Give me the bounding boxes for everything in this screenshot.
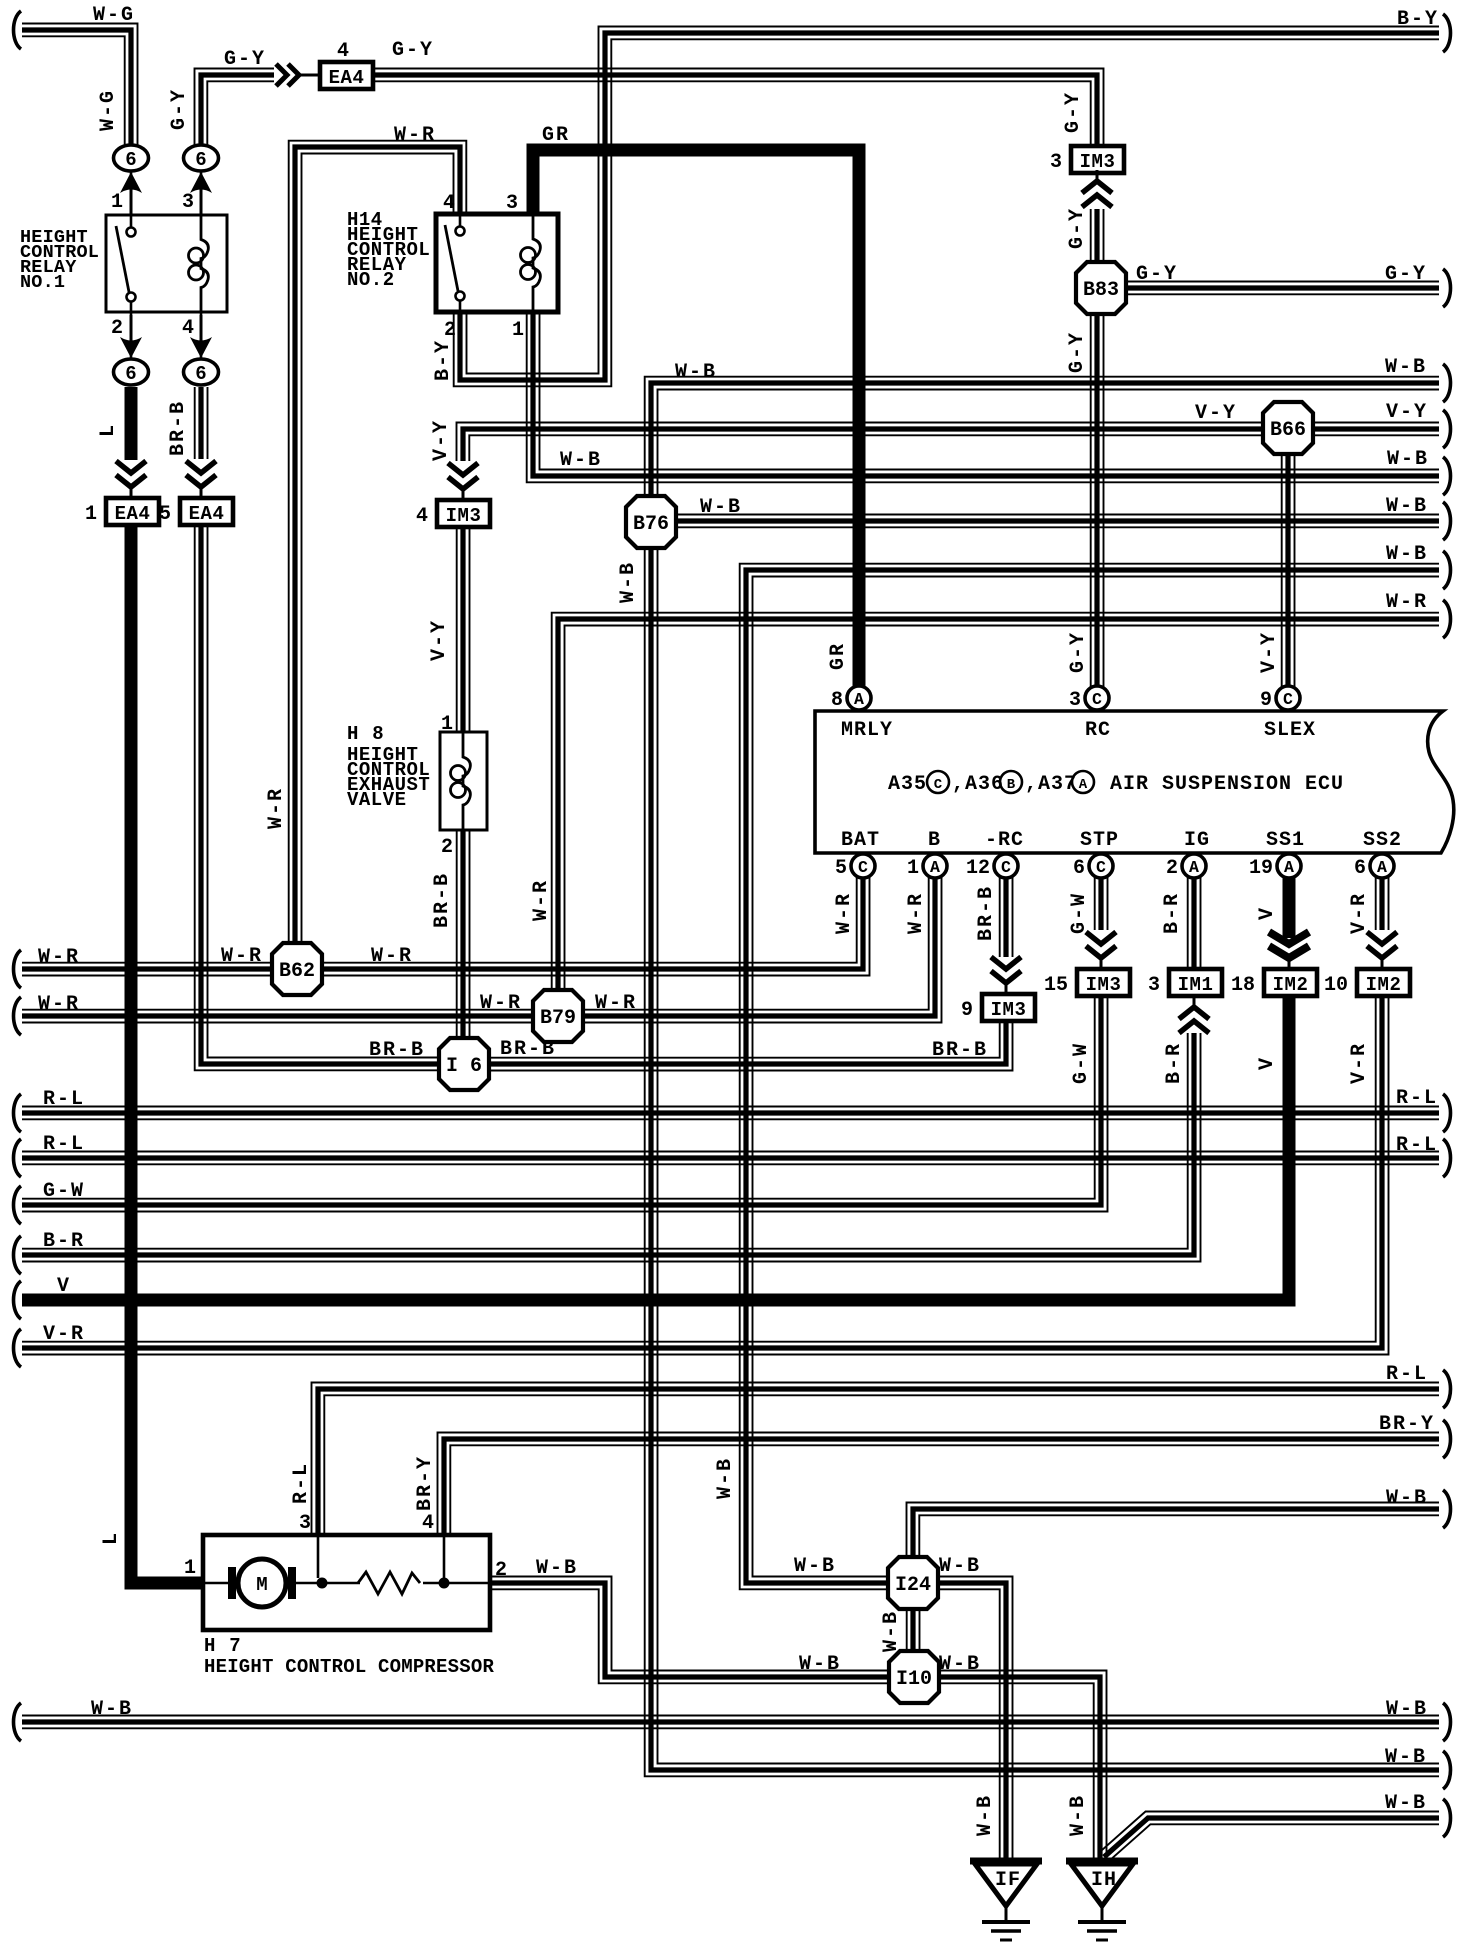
connector 18 IM2 (1264, 969, 1317, 996)
svg-text:W-B: W-B (1386, 1698, 1428, 1721)
svg-text:W-B: W-B (1387, 448, 1429, 471)
svg-text:C: C (1092, 690, 1102, 709)
svg-text:W-B: W-B (880, 1610, 903, 1652)
arrow into EA4 (L) (116, 461, 146, 473)
svg-text:HEIGHT CONTROL COMPRESSOR: HEIGHT CONTROL COMPRESSOR (204, 1656, 494, 1678)
wire G-Y B83 to right edge (1127, 282, 1439, 295)
wire G-Y EA4 to IM3 (373, 69, 1104, 147)
svg-text:IF: IF (995, 1869, 1021, 1892)
svg-text:IM2: IM2 (1366, 974, 1402, 996)
connector 4 IM3 (437, 500, 490, 527)
relay No.1 coil (201, 215, 208, 312)
svg-text:W-R: W-R (833, 892, 856, 934)
wire G-W IM3 to left edge (bus1205) (22, 996, 1108, 1212)
svg-text:BR-Y: BR-Y (1379, 1413, 1435, 1436)
wire B-Y relay No.2 pin2 to right edge (454, 27, 1439, 387)
svg-text:W-B: W-B (700, 496, 742, 519)
svg-text:V-R: V-R (43, 1323, 85, 1346)
svg-text:3: 3 (1069, 689, 1081, 712)
svg-text:V: V (1256, 906, 1279, 920)
wire W-B I24 to I10 (907, 1608, 920, 1652)
relay HEIGHT CONTROL RELAY NO.1 (106, 215, 227, 312)
svg-text:IG: IG (1184, 829, 1210, 852)
svg-text:W-B: W-B (939, 1653, 981, 1676)
svg-text:G-W: G-W (43, 1180, 85, 1203)
svg-text:V-Y: V-Y (430, 419, 453, 461)
svg-text:IH: IH (1091, 1869, 1117, 1892)
arrow into EA4 (G-Y) (276, 64, 287, 86)
svg-text:R-L: R-L (1396, 1087, 1438, 1110)
svg-text:A: A (1377, 858, 1387, 877)
wire L relay No.1 pin2 (thick) (125, 387, 138, 460)
svg-text:W-B: W-B (1067, 1794, 1090, 1836)
svg-text:G-Y: G-Y (1066, 331, 1089, 373)
wire W-B B76 right (bus521) (651, 515, 1439, 528)
svg-text:BR-B: BR-B (932, 1039, 988, 1062)
svg-text:6: 6 (125, 363, 136, 385)
svg-text:I24: I24 (895, 1574, 931, 1597)
svg-text:1: 1 (111, 191, 123, 214)
svg-text:B-R: B-R (1163, 1042, 1186, 1084)
wire BR-B valve pin2 to I6 (457, 830, 470, 1064)
svg-text:BR-B: BR-B (167, 400, 190, 456)
svg-text:I 6: I 6 (446, 1055, 482, 1078)
connector 15 IM3 (1077, 969, 1130, 996)
svg-text:R-L: R-L (43, 1133, 85, 1156)
wire W-G from connector (top left) (22, 24, 138, 146)
wire L EA4 to compressor pin1 (thick) (131, 525, 203, 1583)
svg-text:W-R: W-R (530, 879, 553, 921)
svg-text:A: A (1079, 777, 1088, 793)
svg-text:5: 5 (835, 857, 847, 880)
svg-text:W-B: W-B (1386, 543, 1428, 566)
svg-text:G-Y: G-Y (168, 88, 191, 130)
octagon connector B66 (1263, 402, 1313, 454)
svg-text:EA4: EA4 (329, 67, 365, 89)
svg-text:2: 2 (111, 317, 123, 340)
wire G-W ECU STP upper (1095, 853, 1108, 930)
svg-text:NO.2: NO.2 (347, 269, 395, 291)
svg-text:,A36: ,A36 (952, 773, 1004, 796)
arrow into 9 IM3 (991, 957, 1021, 969)
wire W-B I24 top to right edge (bus1509) (907, 1503, 1440, 1559)
connector 3 IM3 (top right) (1071, 146, 1124, 173)
arrow from relay pin4 (190, 337, 212, 358)
relay H14 HEIGHT CONTROL RELAY NO.2 (436, 214, 558, 312)
relay H14 coil (533, 214, 540, 312)
wire V-Y IM3 to valve pin1 (457, 527, 470, 732)
svg-text:18: 18 (1231, 974, 1255, 997)
svg-text:A: A (854, 690, 864, 709)
ground IH (1066, 1858, 1138, 1865)
svg-text:L: L (100, 1531, 123, 1545)
wire V-R IM2 to left edge (bus1348) (22, 996, 1389, 1355)
svg-text:V-Y: V-Y (428, 619, 451, 661)
svg-text:W-B: W-B (536, 1557, 578, 1580)
svg-text:9: 9 (961, 999, 973, 1022)
arrow into connector 6 (pin1) (120, 172, 142, 193)
compressor motor M (203, 1582, 232, 1585)
svg-text:MRLY: MRLY (841, 719, 893, 742)
svg-text:IM3: IM3 (1080, 151, 1116, 173)
svg-text:B-R: B-R (43, 1230, 85, 1253)
octagon connector B79 (533, 990, 583, 1042)
octagon connector B83 (1076, 262, 1126, 314)
connector 9 IM3 (982, 994, 1035, 1021)
wire W-R bus619 + vertical to B79 (552, 613, 1439, 1016)
svg-text:6: 6 (125, 149, 136, 171)
svg-text:V-R: V-R (1348, 1042, 1371, 1084)
svg-text:R-L: R-L (1396, 1134, 1438, 1157)
svg-text:SLEX: SLEX (1264, 719, 1316, 742)
wire G-Y to EA4 (195, 69, 275, 146)
svg-text:B: B (928, 829, 941, 852)
svg-text:SS2: SS2 (1363, 829, 1402, 852)
svg-text:B76: B76 (633, 513, 669, 536)
octagon connector B62 (272, 943, 322, 995)
svg-text:B79: B79 (540, 1007, 576, 1030)
octagon connector B76 (626, 496, 676, 548)
octagon connector I 6 (439, 1038, 489, 1090)
ECU pin 5 C BAT (851, 854, 875, 878)
svg-text:W-B: W-B (794, 1555, 836, 1578)
svg-text:R-L: R-L (1386, 1363, 1428, 1386)
wire G-Y IM3 to B83 to ECU RC (1091, 209, 1104, 711)
svg-text:W-R: W-R (480, 992, 522, 1015)
svg-text:BAT: BAT (841, 829, 880, 852)
wire V-Y B66 to ECU SLEX (1282, 428, 1295, 711)
ECU pin 12 C -RC (994, 854, 1018, 878)
connector circle 6 (W-G) (114, 145, 149, 171)
junction dot pin4 (439, 1578, 450, 1589)
left edge continuation symbols (14, 11, 22, 49)
svg-text:W-R: W-R (38, 946, 80, 969)
arrow into IM3 (V-Y) (448, 463, 478, 475)
wire W-B relay No.2 pin1 (bus476) (527, 312, 1439, 482)
svg-text:B66: B66 (1270, 419, 1306, 442)
svg-text:W-R: W-R (221, 945, 263, 968)
connector circle 6 (G-Y) (184, 145, 219, 171)
wire V IM2 to left edge (thick bus1300) (22, 996, 1289, 1300)
svg-text:W-G: W-G (93, 4, 135, 27)
svg-text:1: 1 (441, 713, 453, 736)
svg-text:RC: RC (1085, 719, 1111, 742)
svg-text:C: C (1283, 690, 1293, 709)
svg-text:4: 4 (416, 505, 428, 528)
svg-text:W-R: W-R (265, 787, 288, 829)
octagon connector I24 (888, 1557, 938, 1609)
svg-text:4: 4 (182, 317, 194, 340)
svg-text:GR: GR (827, 642, 850, 670)
svg-text:W-R: W-R (394, 124, 436, 147)
svg-text:SS1: SS1 (1266, 829, 1305, 852)
wire B-R IM1 to left edge (bus1255) (22, 1033, 1201, 1262)
wire W-B I10 to IH ground (940, 1671, 1107, 1862)
svg-text:W-B: W-B (1385, 1746, 1427, 1769)
svg-text:L: L (97, 423, 120, 437)
svg-text:W-B: W-B (1386, 1487, 1428, 1510)
ECU pin 19 A SS1 (1277, 854, 1301, 878)
svg-text:EA4: EA4 (115, 503, 151, 525)
wire BR-B IM3 to I6 (464, 1021, 1013, 1071)
svg-text:6: 6 (195, 149, 206, 171)
connector 10 IM2 (1357, 969, 1410, 996)
ECU pin 3 C RC (1085, 686, 1109, 710)
svg-text:1: 1 (907, 857, 919, 880)
svg-text:B-Y: B-Y (1397, 8, 1439, 31)
svg-text:W-G: W-G (97, 89, 120, 131)
ECU pin 1 A B (923, 854, 947, 878)
svg-text:B: B (1007, 777, 1016, 793)
svg-text:BR-Y: BR-Y (414, 1455, 437, 1511)
compressor resistor (322, 1582, 360, 1585)
svg-text:2: 2 (1166, 857, 1178, 880)
svg-text:IM2: IM2 (1273, 974, 1309, 996)
svg-text:8: 8 (831, 689, 843, 712)
ground IF (970, 1858, 1042, 1865)
svg-text:G-Y: G-Y (224, 48, 266, 71)
svg-text:12: 12 (966, 857, 990, 880)
svg-text:W-B: W-B (1385, 1792, 1427, 1815)
svg-text:3: 3 (182, 191, 194, 214)
arrow into 15 IM3 (1086, 932, 1116, 944)
svg-text:V-R: V-R (1348, 892, 1371, 934)
ECU pin 2 A IG (1182, 854, 1206, 878)
svg-text:G-W: G-W (1070, 1042, 1093, 1084)
svg-text:6: 6 (1073, 857, 1085, 880)
wire BR-Y to compressor pin4 (438, 1433, 1440, 1536)
svg-text:A35: A35 (888, 773, 927, 796)
svg-text:R-L: R-L (43, 1088, 85, 1111)
svg-text:6: 6 (195, 363, 206, 385)
svg-text:R-L: R-L (290, 1462, 313, 1504)
svg-text:IM3: IM3 (446, 505, 482, 527)
svg-text:VALVE: VALVE (347, 789, 407, 811)
svg-text:G-Y: G-Y (1067, 631, 1090, 673)
connector 3 IM1 (1169, 969, 1222, 996)
wire W-R relay No.2 pin4 to B62 (289, 141, 467, 969)
svg-text:IM1: IM1 (1178, 974, 1214, 996)
valve H8 HEIGHT CONTROL EXHAUST VALVE (440, 732, 487, 830)
svg-text:5: 5 (159, 503, 171, 526)
svg-text:W-R: W-R (1386, 591, 1428, 614)
svg-text:C: C (1096, 858, 1106, 877)
connector circle 6 (BR-B) (184, 359, 219, 385)
svg-text:3: 3 (1148, 974, 1160, 997)
compressor H7 HEIGHT CONTROL COMPRESSOR box (203, 1535, 490, 1630)
connector 1 EA4 (106, 498, 159, 525)
ECU pin 8 A MRLY (847, 686, 871, 710)
wire R-L bus1113 (22, 1107, 1439, 1120)
arrow from relay pin2 (120, 337, 142, 358)
wire BR-B EA4 to I6 (195, 525, 464, 1070)
arrow into connector 6 (pin3) (190, 172, 212, 193)
svg-text:G-W: G-W (1068, 892, 1091, 934)
svg-text:STP: STP (1080, 829, 1119, 852)
svg-text:3: 3 (299, 1512, 311, 1535)
svg-text:W-R: W-R (595, 992, 637, 1015)
wire GR relay No.2 pin3 to ECU MRLY (thick) (533, 150, 859, 711)
svg-text:2: 2 (441, 836, 453, 859)
svg-text:W-R: W-R (371, 945, 413, 968)
svg-text:A: A (930, 858, 940, 877)
wire R-L to compressor pin3 (312, 1383, 1440, 1536)
svg-text:W-B: W-B (91, 1698, 133, 1721)
connector circle 6 (L) (114, 359, 149, 385)
svg-text:C: C (1001, 858, 1011, 877)
svg-text:V-Y: V-Y (1195, 402, 1237, 425)
wire W-B I24 to IF ground (939, 1577, 1013, 1862)
svg-text:V-Y: V-Y (1258, 631, 1281, 673)
connector 5 EA4 (180, 498, 233, 525)
svg-text:-RC: -RC (985, 829, 1024, 852)
svg-text:V: V (1256, 1056, 1279, 1070)
svg-text:BR-B: BR-B (369, 1039, 425, 1062)
wire W-R ECU BAT to left edge (bus969) (22, 853, 870, 976)
svg-text:G-Y: G-Y (392, 39, 434, 62)
ECU pin 9 C SLEX (1276, 686, 1300, 710)
svg-text:W-B: W-B (714, 1457, 737, 1499)
wire W-R ECU B to left edge (bus1016) (22, 853, 942, 1023)
svg-text:H 8: H 8 (347, 723, 385, 745)
wire W-B B76 bus (bus383 + vertical + bus1770) (645, 377, 1439, 1777)
svg-text:4: 4 (422, 1512, 434, 1535)
svg-text:B-Y: B-Y (432, 339, 455, 381)
arrow into 18 IM2 (thick V) (1269, 932, 1309, 944)
wire R-L bus1158 (22, 1152, 1439, 1165)
svg-text:BR-B: BR-B (431, 872, 454, 928)
arrow up into 3 IM1 (1179, 1021, 1209, 1033)
svg-text:H 7: H 7 (204, 1635, 242, 1657)
svg-text:1: 1 (85, 503, 97, 526)
svg-text:W-B: W-B (1386, 495, 1428, 518)
wire W-B diagonal to IH + bus1818 (1100, 1812, 1439, 1862)
arrow into EA4 (BR-B) (186, 461, 216, 473)
svg-text:,A37: ,A37 (1025, 773, 1077, 796)
svg-text:V-Y: V-Y (1386, 401, 1428, 424)
svg-text:W-B: W-B (675, 361, 717, 384)
svg-text:BR-B: BR-B (500, 1038, 556, 1061)
svg-text:4: 4 (337, 40, 349, 63)
ECU pin 6 C STP (1089, 854, 1113, 878)
wire W-B long (bus570 + vertical to I24) (740, 564, 1439, 1590)
svg-text:NO.1: NO.1 (20, 272, 65, 293)
svg-text:IM3: IM3 (1086, 974, 1122, 996)
connector EA4 (top) (320, 62, 373, 89)
svg-text:EA4: EA4 (189, 503, 225, 525)
svg-text:2: 2 (444, 319, 456, 342)
svg-text:I10: I10 (896, 1668, 932, 1691)
svg-text:19: 19 (1249, 857, 1273, 880)
right edge continuation symbols (1443, 14, 1451, 52)
ECU pin 6 A SS2 (1370, 854, 1394, 878)
svg-text:B-R: B-R (1161, 892, 1184, 934)
svg-text:C: C (858, 858, 868, 877)
wire BR-B ECU -RC upper (1000, 853, 1013, 957)
svg-text:W-R: W-R (905, 892, 928, 934)
svg-text:V: V (57, 1275, 71, 1298)
svg-text:G-Y: G-Y (1062, 91, 1085, 133)
svg-text:3: 3 (506, 192, 518, 215)
svg-text:W-B: W-B (939, 1555, 981, 1578)
svg-text:W-R: W-R (38, 993, 80, 1016)
octagon connector I10 (889, 1651, 939, 1703)
svg-text:IM3: IM3 (991, 999, 1027, 1021)
svg-text:M: M (256, 1574, 267, 1596)
svg-text:B83: B83 (1083, 279, 1119, 302)
svg-text:AIR SUSPENSION ECU: AIR SUSPENSION ECU (1110, 773, 1344, 796)
svg-text:A: A (1284, 858, 1294, 877)
svg-text:G-Y: G-Y (1385, 263, 1427, 286)
wire B-R ECU IG upper (1188, 853, 1201, 970)
wire W-B bus1722 (22, 1716, 1439, 1729)
junction dot pin3 (317, 1578, 328, 1589)
svg-text:W-B: W-B (974, 1794, 997, 1836)
svg-text:W-B: W-B (1385, 356, 1427, 379)
svg-text:G-Y: G-Y (1136, 263, 1178, 286)
svg-text:A: A (1189, 858, 1199, 877)
svg-text:BR-B: BR-B (975, 885, 998, 941)
wire V-R ECU SS2 upper (1376, 853, 1389, 930)
svg-text:3: 3 (1050, 151, 1062, 174)
svg-text:B62: B62 (279, 960, 315, 983)
svg-text:9: 9 (1260, 689, 1272, 712)
svg-text:10: 10 (1324, 974, 1348, 997)
svg-text:1: 1 (184, 1557, 196, 1580)
svg-text:2: 2 (495, 1559, 507, 1582)
wire W-B compressor pin2 to I10 (490, 1577, 888, 1684)
svg-text:G-Y: G-Y (1066, 207, 1089, 249)
svg-text:1: 1 (512, 319, 524, 342)
svg-text:GR: GR (542, 124, 570, 147)
ECU box AIR SUSPENSION ECU (815, 711, 1454, 853)
svg-text:15: 15 (1044, 974, 1068, 997)
svg-text:C: C (934, 777, 943, 793)
wire BR-B relay No.1 pin4 (195, 387, 208, 459)
arrow up into 3 IM3 (1082, 195, 1112, 207)
svg-text:W-B: W-B (799, 1653, 841, 1676)
arrow into 10 IM2 (1367, 932, 1397, 944)
wire V ECU SS1 upper (thick) (1283, 853, 1296, 938)
svg-text:4: 4 (443, 192, 455, 215)
svg-text:6: 6 (1354, 857, 1366, 880)
svg-text:W-B: W-B (560, 449, 602, 472)
svg-text:W-B: W-B (617, 561, 640, 603)
wire V-Y corner to right edge (bus) (457, 423, 1440, 462)
